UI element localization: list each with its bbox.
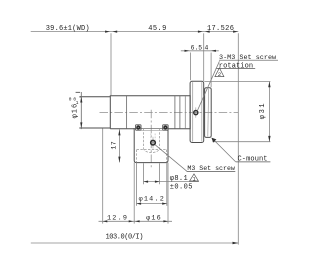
arrow phi16 right <box>163 220 168 222</box>
tube top joint line <box>134 128 168 130</box>
arrow 4 right <box>211 50 216 52</box>
arrow C-mount <box>211 138 216 143</box>
phi8.1 arrows <box>144 181 149 183</box>
leader to flange set screw <box>197 61 219 111</box>
phi16 front dim line <box>80 92 82 129</box>
hidden bore line right <box>159 128 161 148</box>
svg-text:0: 0 <box>69 96 72 102</box>
flange set screw axis <box>195 107 197 117</box>
dim 17 arrows <box>118 130 120 136</box>
o-ring gland right <box>163 125 168 130</box>
barrel groove ring 1 <box>174 96 176 129</box>
svg-text:φ31: φ31 <box>259 102 267 119</box>
extension line image plane <box>237 33 239 244</box>
ext phi14.2 right <box>166 163 168 206</box>
svg-text:2: 2 <box>218 72 221 78</box>
hidden counterbore left <box>136 150 138 163</box>
gland seat line <box>141 129 163 131</box>
svg-text:C-mount: C-mount <box>238 156 268 164</box>
arrows at node 203.8 <box>198 31 203 33</box>
ext line ring right <box>210 53 212 88</box>
lower tube outline <box>134 128 168 163</box>
phi31 dim line <box>268 82 270 142</box>
arrows at node 111 <box>105 31 110 33</box>
barrel internal ring edge <box>126 96 128 129</box>
o-ring right <box>163 125 167 129</box>
extension line flange face <box>203 33 205 81</box>
arrow 12.9 left <box>103 220 108 222</box>
svg-text:17.526: 17.526 <box>207 25 234 33</box>
C-mount threaded ring <box>205 88 212 138</box>
dim 6.5 / 4 line <box>181 50 219 52</box>
phi14.2 dim line <box>137 203 167 205</box>
svg-text:3-M3 Set screw: 3-M3 Set screw <box>219 54 277 62</box>
ext phi8.1 right <box>159 163 161 184</box>
ext phi8.1 left <box>143 163 145 184</box>
ext tube right long <box>167 163 169 224</box>
svg-text:rotation: rotation <box>219 62 253 70</box>
set screw on flange <box>194 111 198 115</box>
dim 17 line <box>118 129 120 162</box>
main barrel outline <box>110 96 190 129</box>
phi31 ext top <box>204 81 270 83</box>
centerline horizontal <box>100 111 239 113</box>
svg-text:φ8.1: φ8.1 <box>170 175 188 183</box>
hidden bore end arc <box>144 148 160 152</box>
revision triangle 2 <box>215 68 224 77</box>
o-ring left <box>136 125 140 129</box>
hidden counterbore right <box>166 150 168 163</box>
ext phi14.2 left <box>136 163 138 206</box>
front face corner overshoot <box>79 97 81 128</box>
extension line front node <box>110 33 112 95</box>
flange face inner line right <box>201 82 203 141</box>
barrel groove ring 2 <box>179 96 181 129</box>
arrow 6.5 left <box>185 50 190 52</box>
flange face inner line left <box>192 82 194 141</box>
svg-text:103.0(0/I): 103.0(0/I) <box>106 233 144 241</box>
svg-text:φ14.2: φ14.2 <box>139 196 165 204</box>
bottom overall dim line <box>31 242 239 244</box>
arrows middle pair <box>129 220 133 222</box>
phi8.1 dim line <box>144 181 199 183</box>
svg-text:45.9: 45.9 <box>148 25 166 33</box>
svg-text:1: 1 <box>76 100 79 106</box>
centerline vertical of lower tube <box>150 110 152 169</box>
top dimension line <box>31 31 239 33</box>
o-ring gland left <box>136 125 141 130</box>
tube set screw axis <box>152 137 154 149</box>
set screw on lower tube <box>151 140 156 145</box>
barrel thin ring edge <box>184 96 186 129</box>
ext tube left long <box>133 163 135 224</box>
phi14.2 arrows <box>137 203 142 205</box>
hidden screw hole <box>151 134 155 141</box>
svg-text:±0.05: ±0.05 <box>170 184 193 192</box>
phi31 ext bottom <box>213 141 271 143</box>
ext line 6.5 left <box>189 53 191 81</box>
revision triangle 1 <box>190 174 199 181</box>
svg-text:1: 1 <box>193 176 196 182</box>
svg-text:6.5: 6.5 <box>191 44 203 51</box>
bottom dim line 12.9 / phi16 <box>99 220 173 222</box>
arrow overall right <box>233 242 239 244</box>
phi31 arrows <box>268 82 270 88</box>
svg-text:4: 4 <box>204 44 208 51</box>
svg-text:39.6±1(WD): 39.6±1(WD) <box>46 25 90 33</box>
svg-text:17: 17 <box>111 141 118 150</box>
C-mount ring inner edge <box>207 89 210 137</box>
front tube (phi16) <box>80 97 110 128</box>
hidden counterbore shoulder <box>137 149 167 151</box>
arrow at image plane <box>233 31 238 33</box>
ext line 12.9 left <box>102 128 104 223</box>
hidden bore line left <box>143 128 145 148</box>
mount flange phi31 <box>190 81 204 142</box>
svg-text:12.9: 12.9 <box>107 215 128 223</box>
phi16 arrows <box>80 97 82 103</box>
leader C-mount <box>212 138 236 162</box>
svg-text:φ16: φ16 <box>146 215 162 223</box>
leader to tube set screw <box>155 145 187 171</box>
